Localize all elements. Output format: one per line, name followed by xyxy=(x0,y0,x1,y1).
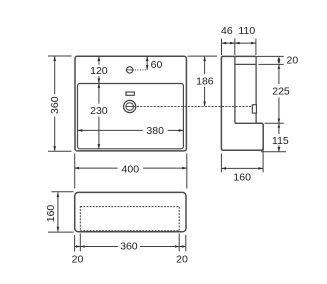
dimension 20 right inside arrow xyxy=(179,245,183,248)
dimension 360 arrow left xyxy=(80,245,84,248)
dimension 160 side line xyxy=(221,167,263,169)
extension line right for 400 xyxy=(186,154,188,189)
svg-text:225: 225 xyxy=(272,86,290,98)
dimension 380 arrow left xyxy=(78,129,83,132)
dimension 160 front line xyxy=(57,192,59,231)
svg-text:230: 230 xyxy=(90,105,108,117)
dimension 120 arrow up xyxy=(98,56,101,61)
dimension 360 left line upper segment xyxy=(54,56,56,94)
front view outer rounded rect xyxy=(75,192,186,231)
dimension 186 arrow up xyxy=(203,56,206,61)
svg-text:120: 120 xyxy=(90,65,108,77)
faucet hole center tick xyxy=(126,69,134,71)
dimension 60 arrow down xyxy=(146,65,149,70)
side view front wall vertical xyxy=(255,56,257,123)
dimension 20 left inside arrow xyxy=(76,245,80,248)
dimension 230 arrow up xyxy=(98,83,101,88)
drain inner circle xyxy=(126,103,134,111)
dimension 360 left arrow down xyxy=(53,146,56,151)
dimension 360 left line lower segment xyxy=(54,117,56,152)
dimension 230 arrow down xyxy=(98,144,101,149)
dimension 60 arrow up xyxy=(146,56,149,61)
extension line left for 400 xyxy=(74,154,76,189)
svg-text:46: 46 xyxy=(221,25,233,37)
extension line rim underside for 20/225 xyxy=(259,63,284,65)
front view dashed pedestal rect xyxy=(80,207,179,231)
extension line bottom for 160 front xyxy=(48,231,74,233)
faucet dotted leader to 60 dim xyxy=(135,69,148,71)
dimension 115 arrow up (tip at step) xyxy=(278,123,281,128)
side view rim underside line xyxy=(235,63,256,65)
dimension 186 line lower segment xyxy=(204,87,206,106)
dimension 46/110 double arrow middle left xyxy=(230,42,235,45)
dimension 160 side arrow right xyxy=(258,167,263,170)
dimension 360 left arrow up xyxy=(53,56,56,61)
extension line bottom for 360 left xyxy=(48,150,72,152)
side view bowl bottom / step line xyxy=(235,122,261,124)
extension line dashed right for 360 bottom xyxy=(178,234,180,252)
dimension 400 line left segment xyxy=(74,167,117,169)
extension line dashed left for 360 bottom xyxy=(79,234,81,252)
dimension 186 arrow down xyxy=(203,102,206,107)
dimension 120 line lower segment xyxy=(98,76,100,83)
dimension 46/110 double arrow middle right xyxy=(235,42,240,45)
top view outer rect (basin plan 400x360) xyxy=(75,56,186,151)
dimension 110 arrow right xyxy=(251,42,256,45)
dimension 225 line lower segment xyxy=(278,98,280,124)
dimension 115 line lower segment xyxy=(278,145,280,152)
overflow slot rect xyxy=(126,92,134,95)
dimension 360 bottom line right segment xyxy=(140,246,186,248)
dimension 160 side arrow left xyxy=(221,167,226,170)
extension line for 46/110 middle xyxy=(234,39,236,56)
drain dashed centerline to side view xyxy=(137,105,253,107)
dimension 380 line right segment xyxy=(168,129,184,131)
dimension 120 line upper segment xyxy=(98,56,100,65)
extension line top for 160 front xyxy=(52,191,74,193)
svg-text:160: 160 xyxy=(233,171,251,183)
svg-text:360: 360 xyxy=(49,96,61,114)
svg-text:360: 360 xyxy=(120,241,138,253)
drain outer circle xyxy=(124,100,136,112)
svg-text:400: 400 xyxy=(122,164,140,176)
dimension 115 line upper segment xyxy=(278,123,280,134)
dimension 186 line upper segment xyxy=(204,57,206,75)
dimension 380 arrow right xyxy=(179,129,184,132)
extension line top for 186 xyxy=(188,55,217,57)
svg-text:380: 380 xyxy=(146,125,164,137)
dimension 115 arrow down (tip at bottom) xyxy=(278,147,281,152)
dimension 400 arrow left xyxy=(74,167,79,170)
side view outer profile (L shape) xyxy=(221,56,263,150)
svg-text:110: 110 xyxy=(238,25,255,37)
faucet hole circle xyxy=(127,67,133,73)
dimension 20 diamond arrow lower half xyxy=(278,60,281,64)
dimension 120 arrow down xyxy=(98,79,101,84)
svg-text:115: 115 xyxy=(272,135,289,147)
dimension 380 line left segment xyxy=(78,129,143,131)
extension line for 110 right xyxy=(255,39,257,56)
svg-text:20: 20 xyxy=(72,253,84,265)
dimension 400 arrow right xyxy=(182,167,187,170)
extension line outer right for 20 bottom xyxy=(185,235,187,252)
dimension 46 arrow left xyxy=(222,42,227,45)
dimension 230 line lower segment xyxy=(98,117,100,149)
svg-text:20: 20 xyxy=(287,55,299,67)
svg-text:60: 60 xyxy=(151,59,163,71)
extension line step for 115 xyxy=(265,122,284,124)
dimension 400 line right segment xyxy=(143,167,187,169)
dimension 230 line upper segment xyxy=(98,83,100,104)
top view inner bowl rounded rect xyxy=(78,84,184,149)
extension line bottom for 115 xyxy=(261,151,286,153)
dimension 60 line xyxy=(146,56,148,70)
side view fixing hole small rect xyxy=(252,105,256,113)
dimension 160 front arrow up xyxy=(57,192,60,197)
extension line for 46 left xyxy=(221,39,223,56)
side view bowl inner wall vertical xyxy=(234,56,236,123)
dimension 360 bottom line left segment xyxy=(75,246,118,248)
extension line left for 160 side xyxy=(220,154,222,173)
svg-text:20: 20 xyxy=(176,253,188,265)
dimension 225 arrow down (tip at step) xyxy=(278,119,281,124)
dimension 360 arrow right xyxy=(175,245,179,248)
dimension 46-110 line xyxy=(222,42,256,44)
extension line right for 160 side xyxy=(262,146,264,172)
svg-text:160: 160 xyxy=(45,205,57,223)
svg-text:186: 186 xyxy=(196,76,214,88)
extension line outer left for 20 bottom xyxy=(74,235,76,252)
dimension 160 front arrow down xyxy=(57,227,60,232)
dimension 20 diamond arrow upper half xyxy=(278,56,281,60)
dimension 225 line upper segment xyxy=(278,64,280,84)
drain center tick xyxy=(126,106,136,108)
extension line top rim for 20 xyxy=(256,55,284,57)
dimension 20 arrow up (tip at rim underside) xyxy=(278,64,281,69)
extension line top for 360 left xyxy=(48,55,72,57)
